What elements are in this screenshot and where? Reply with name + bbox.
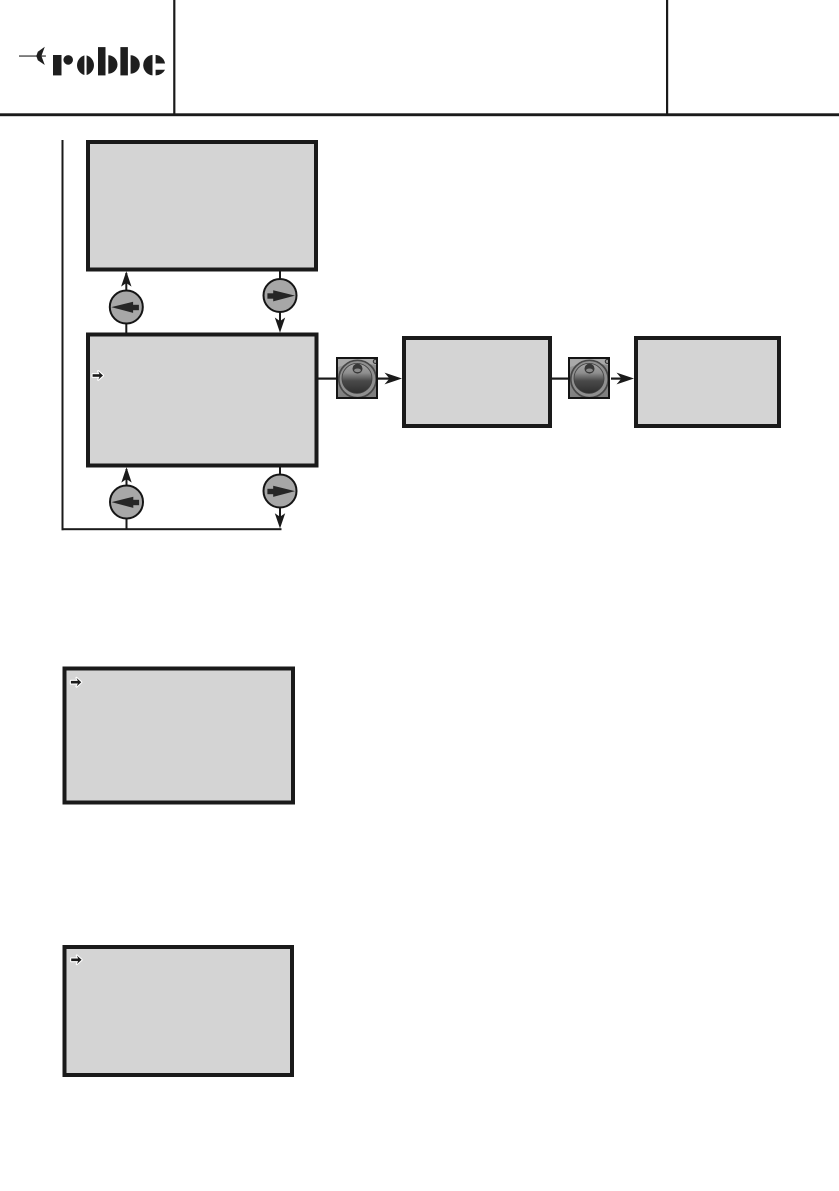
key B (right arrow button) (264, 279, 297, 312)
loop wire bottom horizontal (62, 528, 282, 530)
key C (left arrow button) (110, 486, 143, 519)
wire box 3 to rotary knob 2 (552, 378, 568, 380)
robbe logo (19, 47, 165, 76)
wire key B to box 2 with arrowhead (275, 311, 285, 333)
rotary knob 1 (337, 358, 377, 398)
wire box 2 to key D (279, 467, 281, 476)
header bottom rule (0, 113, 839, 116)
arrow knob 2 to box 4 (611, 373, 634, 385)
key A (left arrow button) (110, 291, 143, 324)
arrow glyph in box 5 (71, 678, 81, 687)
arrow knob 1 to box 3 (378, 373, 402, 385)
arrow glyph in box 6 (71, 956, 81, 965)
wire key A to box 2 (125, 323, 127, 334)
arrow glyph in box 2 (93, 371, 103, 380)
box 3 (404, 338, 550, 426)
rotary knob 2 (569, 358, 609, 398)
wire key C to bottom loop (126, 518, 128, 530)
box 6 (65, 947, 293, 1075)
wire up from key C to box 2 with arrowhead (121, 467, 131, 486)
wire up from key A to box 1 with arrowhead (121, 271, 131, 292)
box 4 (636, 338, 779, 426)
key D (right arrow button) (264, 475, 297, 508)
wire box 1 to key B (279, 271, 281, 280)
box 1 (88, 142, 316, 270)
box 2 (88, 335, 317, 466)
header divider line right (666, 0, 668, 114)
loop wire left vertical (62, 140, 64, 530)
wire key D down to loop with arrowhead (275, 507, 285, 529)
box 5 (65, 669, 294, 803)
header divider line left (173, 0, 175, 114)
wire box 2 to rotary knob 1 (319, 378, 337, 380)
